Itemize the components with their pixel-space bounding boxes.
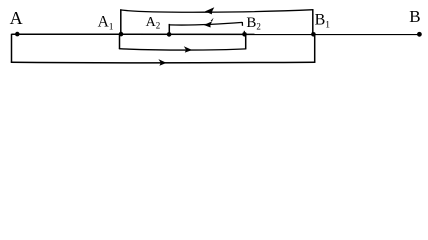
node A1 dot bbox=[119, 32, 124, 37]
node B dot bbox=[417, 32, 422, 37]
svg-text:B: B bbox=[409, 7, 420, 26]
wire: hook A-B1 vertical at B1 below axis bbox=[314, 34, 316, 63]
svg-text:B1: B1 bbox=[315, 12, 331, 31]
wire: hook B1-A1 vertical at B1 bbox=[312, 10, 314, 35]
arrowhead right on hook A-B1 bbox=[158, 59, 166, 66]
svg-text:A2: A2 bbox=[146, 15, 161, 31]
node A2 dot bbox=[167, 32, 172, 37]
wire: hook A-B1 horizontal bottom bbox=[11, 61, 316, 64]
svg-text:A: A bbox=[10, 8, 23, 28]
node B2 dot bbox=[242, 32, 247, 37]
arrowhead left on hook B1-A1 bbox=[205, 7, 214, 14]
wire: hook A1-B2 vertical at B2 below axis bbox=[245, 34, 247, 49]
svg-text:B2: B2 bbox=[246, 15, 261, 32]
svg-text:A1: A1 bbox=[98, 13, 114, 32]
arrowhead left on hook B2-A2 bbox=[211, 18, 214, 22]
wire: hook B2-A2 stub above B2 dot bbox=[243, 31, 245, 34]
wire: hook A1-B2 vertical at A1 below axis bbox=[119, 34, 121, 49]
wire: hook B2-A2 vertical at A2 bbox=[168, 24, 170, 34]
wire: hook B1-A1 vertical at A1 bbox=[120, 9, 122, 34]
wire: hook A-B1 vertical at A below axis bbox=[11, 34, 13, 63]
wire: hook B2-A2 down tick at B2 end bbox=[241, 22, 243, 26]
wire: hook A1-B2 horizontal below axis with sag bbox=[119, 49, 246, 50]
node A dot bbox=[15, 32, 20, 37]
wire: main axis line A to B bbox=[12, 33, 420, 35]
node B1 dot bbox=[311, 32, 316, 37]
wire: hook B2-A2 horizontal with sag bbox=[169, 22, 242, 25]
arrowhead right on hook A1-B2 bbox=[184, 46, 192, 52]
wire: hook B1-A1 horizontal bbox=[120, 10, 313, 13]
